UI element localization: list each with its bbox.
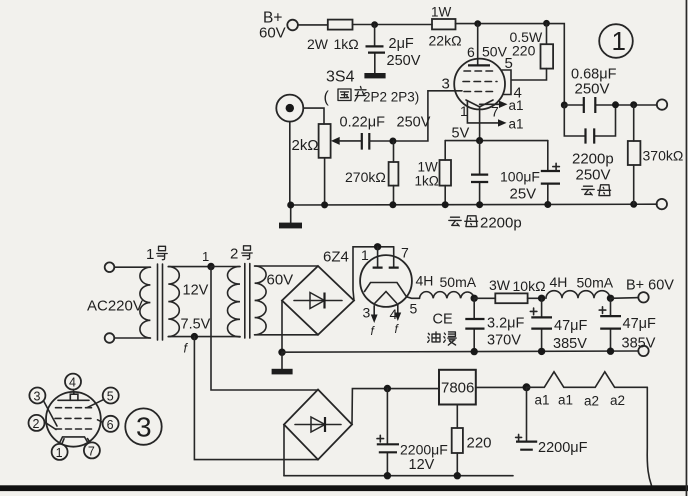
svg-text:6: 6 — [467, 44, 475, 60]
resistor R1 2W 1kΩ — [307, 20, 359, 52]
PSU ground rail — [282, 351, 638, 352]
capacitor C3 0.68μF 250V — [564, 67, 657, 114]
node L2/C10 — [607, 295, 614, 302]
6Z4 cathode — [365, 283, 420, 299]
wire 7806 out — [476, 386, 527, 388]
node C11 ground — [384, 472, 391, 479]
svg-text:5: 5 — [107, 390, 114, 404]
svg-text:22kΩ: 22kΩ — [429, 33, 462, 49]
svg-text:385V: 385V — [553, 336, 587, 352]
T2 label 2号 — [230, 246, 252, 263]
svg-text:1: 1 — [361, 247, 369, 263]
transformer T1 secondary 12V/7.5V — [168, 267, 210, 337]
node D — [389, 138, 396, 145]
svg-text:250V: 250V — [387, 53, 421, 69]
cathode lead to 5V rail — [479, 107, 481, 141]
svg-text:7: 7 — [88, 444, 95, 458]
svg-text:a2: a2 — [610, 393, 625, 408]
bridge rectifier D1 (main HV) — [282, 266, 354, 335]
bridge negative to ground — [281, 301, 283, 353]
resistor R8 220 — [452, 405, 492, 476]
tube V1 grids (dashed) — [463, 71, 497, 92]
svg-text:60V: 60V — [259, 25, 286, 42]
svg-text:1kΩ: 1kΩ — [334, 36, 359, 52]
svg-text:1: 1 — [460, 103, 468, 119]
ground rail (top section) — [291, 203, 657, 206]
resistor R7 3W 10kΩ — [474, 277, 545, 303]
svg-text:a1: a1 — [509, 98, 524, 113]
svg-text:2: 2 — [33, 417, 40, 431]
bridge D2 positive riser — [352, 389, 439, 425]
wire B+ to R1 — [298, 24, 328, 26]
svg-text:0.22μF: 0.22μF — [340, 115, 386, 131]
output terminal (bottom) — [657, 199, 667, 209]
svg-text:2P2 2P3): 2P2 2P3) — [363, 90, 419, 105]
ground symbol (input) — [279, 205, 302, 228]
pin 1 circle — [52, 439, 68, 460]
chassis ground symbol — [272, 352, 293, 374]
svg-text:5V: 5V — [452, 126, 470, 142]
svg-text:100μF: 100μF — [500, 169, 540, 185]
svg-text:270kΩ: 270kΩ — [345, 169, 386, 185]
resistor R4 1W 1kΩ — [415, 141, 452, 205]
tube V2 6Z4 — [323, 243, 412, 307]
node B (plate node) — [474, 20, 481, 27]
svg-text:1: 1 — [202, 249, 209, 264]
pin 3 circle — [29, 388, 57, 427]
6Z4 heater pin 3 arrow — [363, 305, 378, 339]
svg-text:12V: 12V — [409, 457, 435, 473]
choke L2 4H 50mA — [546, 274, 614, 298]
choke L1 4H 50mA — [416, 273, 477, 299]
T2 secondary leads to bridge — [255, 266, 318, 335]
svg-text:CE: CE — [433, 312, 453, 328]
feed wire from T1 top tap to heater bridge — [211, 267, 318, 391]
capacitor C4 2200p 250V mica (parallel) — [564, 105, 615, 196]
pin 7 circle — [84, 439, 100, 459]
6Z4 filament — [375, 292, 397, 304]
svg-text:5: 5 — [410, 301, 418, 317]
svg-text:1W: 1W — [418, 160, 439, 175]
tube V1 plate lead + label 6 50V — [467, 24, 508, 66]
transformer T2 core — [245, 264, 250, 339]
capacitor 2200p mica — [471, 141, 488, 205]
svg-text:4H: 4H — [550, 274, 568, 290]
capacitor C11 2200μF 12V — [377, 389, 448, 476]
transformer T1 core — [158, 264, 163, 340]
node DC+ / C11 — [384, 385, 391, 392]
svg-text:2200p: 2200p — [572, 151, 614, 168]
svg-text:2kΩ: 2kΩ — [292, 137, 319, 154]
regulator U1 7806 — [439, 370, 476, 405]
resistor R3 0.5W 220 — [510, 23, 554, 68]
capacitor C9 47μF 385V — [530, 298, 587, 352]
svg-text:3.2μF: 3.2μF — [487, 316, 525, 332]
marker circled 3 — [125, 408, 161, 444]
svg-text:6: 6 — [107, 418, 114, 432]
pinout grids dashed — [55, 408, 94, 429]
T1 label 1号 — [146, 246, 167, 263]
bridge D2 negative to ground rail — [283, 425, 285, 476]
svg-text:220: 220 — [512, 43, 536, 59]
node C (screen feed node) — [543, 20, 550, 27]
6Z4 heater pin 4 arrow — [390, 305, 402, 336]
grid wire to node D (pin 3) — [393, 91, 462, 141]
bridge positive riser to 6Z4 — [353, 247, 394, 301]
svg-text:4: 4 — [69, 376, 76, 390]
svg-text:25V: 25V — [510, 186, 537, 203]
tube V1 envelope — [454, 59, 505, 110]
svg-text:AC220V: AC220V — [87, 298, 143, 315]
text 云母 2200p — [449, 215, 522, 232]
svg-text:250V: 250V — [575, 81, 610, 98]
svg-text:6Z4: 6Z4 — [323, 249, 349, 266]
svg-text:47μF: 47μF — [623, 316, 656, 332]
output terminal (top) — [657, 99, 667, 109]
pinout tube envelope — [46, 392, 101, 447]
pinout cathode — [60, 437, 89, 443]
bottom border bar — [0, 485, 688, 491]
svg-text:50mA: 50mA — [577, 275, 614, 291]
capacitor C8 3.2μF 370V oil — [428, 298, 525, 351]
svg-text:2μF: 2μF — [389, 36, 414, 52]
capacitor 100μF 25V — [500, 141, 560, 205]
capacitor C12 2200μF — [516, 387, 588, 456]
svg-text:2: 2 — [230, 246, 238, 263]
node L1/C8 — [471, 295, 478, 302]
pin 5 circle — [87, 388, 119, 408]
svg-text:3: 3 — [363, 305, 371, 321]
svg-text:a2: a2 — [584, 394, 599, 409]
T1 secondary bottom lead / node — [168, 336, 240, 338]
svg-text:7.5V: 7.5V — [181, 317, 211, 333]
svg-text:4: 4 — [390, 306, 398, 322]
svg-text:250V: 250V — [576, 167, 611, 184]
svg-text:(: ( — [324, 89, 330, 106]
svg-text:220: 220 — [467, 435, 492, 452]
svg-text:a1: a1 — [558, 393, 573, 408]
AC220V input terminals — [87, 262, 143, 342]
capacitor C10 47μF 385V — [599, 298, 656, 351]
capacitor C1 2μF 250V — [366, 25, 421, 73]
transformer T2 secondary 60V — [255, 266, 294, 335]
T1 secondary top lead / node — [168, 266, 211, 268]
pinout plate — [58, 394, 89, 400]
svg-text:4H: 4H — [416, 273, 434, 289]
transformer T1 primary — [114, 267, 150, 338]
heater ground rail — [284, 475, 513, 477]
bridge rectifier D2 (heater) — [284, 390, 352, 460]
svg-text:7: 7 — [401, 245, 409, 261]
svg-text:50mA: 50mA — [440, 274, 477, 290]
node R8 ground — [454, 472, 461, 479]
filament connector links a1 a1 a2 a2 — [527, 372, 648, 409]
resistor R5 270kΩ — [345, 141, 398, 205]
tube V1 cathode/filament — [466, 100, 493, 107]
filament arrow a1 (pin 1) — [460, 101, 524, 132]
5V rail — [445, 140, 548, 142]
pin 2 circle — [29, 415, 57, 431]
right page-edge line — [686, 0, 688, 496]
node F — [630, 101, 637, 108]
node cathode/5V — [476, 137, 483, 144]
svg-text:10kΩ: 10kΩ — [513, 278, 546, 294]
input jack J1 — [276, 95, 324, 205]
svg-text:1W: 1W — [431, 5, 452, 20]
wire R1 to R2 — [353, 24, 433, 26]
screen bracket pins 5/4 — [502, 55, 547, 102]
svg-text:1: 1 — [612, 26, 626, 56]
B+ 60V output terminal — [611, 278, 675, 303]
svg-text:250V: 250V — [397, 115, 431, 131]
svg-text:2W: 2W — [307, 36, 329, 52]
svg-text:7806: 7806 — [441, 380, 474, 397]
tube V1 3S4 labels — [324, 69, 420, 107]
node R7/C9 — [538, 295, 545, 302]
svg-text:a1: a1 — [509, 117, 524, 132]
svg-text:3: 3 — [34, 390, 41, 404]
node E — [612, 101, 619, 108]
node A — [371, 21, 378, 28]
filament arrow a1 (pin 7) — [480, 98, 524, 120]
pin 6 circle — [98, 416, 119, 432]
svg-text:B+ 60V: B+ 60V — [626, 278, 674, 294]
svg-text:60V: 60V — [267, 272, 294, 289]
wire R2 to corner, down to coupling node — [456, 24, 565, 105]
coupling node (from plate rail) — [561, 102, 568, 109]
svg-text:3: 3 — [136, 412, 152, 443]
marker circled 1 — [599, 24, 633, 58]
resistor R6 370kΩ — [628, 105, 684, 205]
svg-text:12V: 12V — [183, 283, 209, 299]
ground rail node dots — [287, 202, 294, 209]
svg-text:47μF: 47μF — [554, 318, 587, 334]
svg-text:2200μF: 2200μF — [400, 442, 448, 458]
PSU ground terminal — [638, 346, 648, 356]
svg-text:1: 1 — [146, 246, 154, 263]
B+ terminal (input from PSU) — [259, 10, 298, 42]
transformer T2 primary — [211, 267, 240, 337]
capacitor C2 0.22μF 250V — [340, 115, 431, 150]
svg-text:370V: 370V — [487, 333, 521, 349]
svg-text:1kΩ: 1kΩ — [415, 174, 439, 189]
svg-text:2200p: 2200p — [480, 215, 522, 232]
svg-text:7: 7 — [491, 104, 499, 120]
feed wire from T1 bottom tap to heater bridge — [194, 337, 318, 460]
svg-text:370kΩ: 370kΩ — [643, 148, 684, 164]
potentiometer 2kΩ — [292, 124, 362, 205]
ground (below C1) — [364, 73, 385, 78]
svg-text:3: 3 — [442, 76, 450, 93]
svg-text:a1: a1 — [535, 393, 550, 408]
pin 4 circle — [65, 374, 81, 395]
svg-text:1: 1 — [56, 446, 63, 460]
wire down right edge — [647, 387, 651, 485]
svg-text:3S4: 3S4 — [326, 69, 355, 86]
svg-text:3W: 3W — [489, 277, 511, 293]
resistor R2 1W 22kΩ — [429, 5, 462, 49]
svg-text:2200μF: 2200μF — [538, 440, 588, 456]
node 6V out — [523, 383, 531, 391]
